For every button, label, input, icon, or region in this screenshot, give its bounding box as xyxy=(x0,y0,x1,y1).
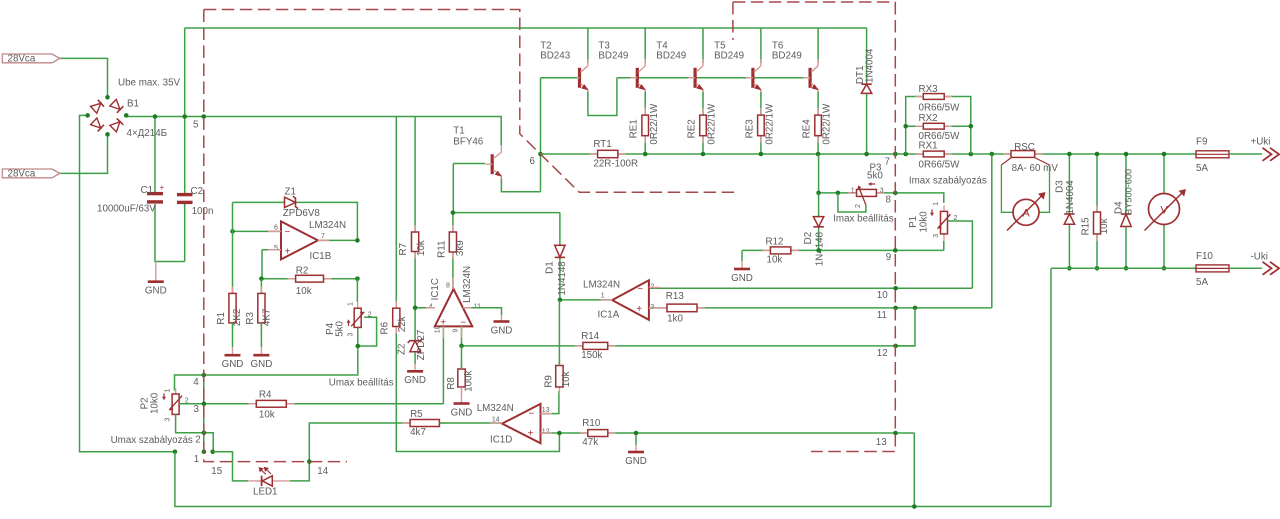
svg-text:3: 3 xyxy=(348,333,355,337)
trimmer P3 5k0 xyxy=(848,192,857,194)
svg-text:1: 1 xyxy=(851,187,855,194)
node 11 net wire xyxy=(697,307,992,309)
svg-text:5A: 5A xyxy=(1196,163,1208,174)
svg-text:R1: R1 xyxy=(216,312,227,325)
net tag 28Vca (top) xyxy=(2,54,60,63)
junction dots raw rail xyxy=(153,114,158,119)
diode D2 1N4148 xyxy=(818,193,820,216)
wire F10 to -Uki port xyxy=(1229,267,1262,269)
svg-text:12: 12 xyxy=(542,429,550,436)
svg-text:2: 2 xyxy=(195,434,200,445)
svg-text:−: − xyxy=(285,227,291,238)
top collector rail xyxy=(185,27,867,29)
diode D4 BY500-600 xyxy=(1125,154,1127,214)
svg-text:IC1A: IC1A xyxy=(598,310,620,321)
wire bridge minus to bottom-left rail (node 1 feed) xyxy=(80,115,175,451)
resistor R7 10k xyxy=(414,117,416,233)
resistor R1 2K2 xyxy=(232,286,234,293)
wire T2 base stub to node 6 column xyxy=(545,77,577,79)
P3 wiper loop wire xyxy=(838,193,866,212)
resistor RX1 0R66/5W xyxy=(915,153,923,155)
op-amp IC1B LM324N xyxy=(233,230,282,232)
resistor R14 150k xyxy=(575,345,583,347)
svg-text:15: 15 xyxy=(211,466,222,477)
svg-text:8: 8 xyxy=(446,282,450,289)
resistor R3 4K7 xyxy=(260,286,262,293)
shunt RSC 8A-60mV xyxy=(1035,153,1196,155)
IC1D pin12 node 13 net xyxy=(541,432,915,434)
svg-text:0R22/1W: 0R22/1W xyxy=(649,103,660,145)
P4 bottom to node 4 net xyxy=(175,327,358,390)
ground below R3 xyxy=(260,323,262,347)
svg-text:BD249: BD249 xyxy=(714,51,744,62)
svg-text:LM324N: LM324N xyxy=(462,266,473,303)
diode D1 1N4148 xyxy=(559,213,561,245)
svg-text:10: 10 xyxy=(877,290,888,301)
ground below R1 xyxy=(232,323,234,347)
svg-text:11: 11 xyxy=(474,303,481,310)
svg-text:R5: R5 xyxy=(410,409,423,420)
emitter resistor RE4 0R22/1W xyxy=(817,92,819,115)
capacitor C2 xyxy=(184,28,186,193)
transistor T1 BFY46 xyxy=(491,154,494,174)
svg-text:GND: GND xyxy=(451,407,473,418)
+Uki output port xyxy=(1263,148,1280,161)
svg-text:GND: GND xyxy=(731,273,753,284)
svg-text:10k: 10k xyxy=(416,240,427,256)
node 9 net wire xyxy=(742,249,944,251)
svg-text:A: A xyxy=(1022,208,1030,220)
node 10 net wire xyxy=(649,287,973,289)
svg-text:7: 7 xyxy=(885,157,890,168)
svg-text:22R-100R: 22R-100R xyxy=(593,158,638,169)
IC1D pin13 to R9 xyxy=(541,391,559,414)
transistor T6 BD249 xyxy=(817,28,819,63)
zener Z2 ZPD27 xyxy=(408,339,423,343)
svg-text:10k0: 10k0 xyxy=(150,392,161,414)
svg-text:RE2: RE2 xyxy=(686,119,697,138)
P1 wiper to node10 riser xyxy=(948,221,972,288)
resistor R8 100k xyxy=(461,362,463,369)
svg-text:150k: 150k xyxy=(581,350,602,361)
svg-text:−: − xyxy=(637,284,643,295)
svg-text:+: + xyxy=(636,304,642,315)
svg-text:RT1: RT1 xyxy=(593,139,611,150)
transistor T5 BD249 xyxy=(760,28,762,63)
svg-text:13: 13 xyxy=(876,437,887,448)
svg-text:3k9: 3k9 xyxy=(455,240,466,256)
resistor R9 10k xyxy=(558,359,560,366)
svg-text:F10: F10 xyxy=(1196,251,1213,262)
svg-text:14: 14 xyxy=(317,466,328,477)
svg-text:T1: T1 xyxy=(453,125,464,136)
svg-text:5: 5 xyxy=(193,119,199,130)
P2 wiper to R4 net (node 3) xyxy=(180,403,204,405)
svg-text:GND: GND xyxy=(222,359,244,370)
current sense ladder left riser xyxy=(906,97,924,155)
wire R5 to IC1D output xyxy=(439,422,502,424)
svg-text:BD243: BD243 xyxy=(540,51,571,62)
module boundary dashed left xyxy=(204,10,736,193)
IC1C pin 10 column to R4 net xyxy=(442,326,444,403)
resistor R12 10k xyxy=(762,249,770,251)
transistor T2 BD243 xyxy=(587,28,589,63)
svg-text:4k7: 4k7 xyxy=(410,427,426,438)
svg-text:R4: R4 xyxy=(259,390,272,401)
IC1C power pin 11 stub to GND xyxy=(463,308,502,315)
svg-text:GND: GND xyxy=(404,375,426,386)
wire main raw DC rail y117 from bridge to T1 collector xyxy=(126,117,501,146)
emitter resistor RE1 0R22/1W xyxy=(644,92,646,115)
resistor R15 10k xyxy=(1096,154,1098,212)
svg-text:11: 11 xyxy=(877,310,887,321)
svg-text:ZPD6V8: ZPD6V8 xyxy=(283,208,321,219)
svg-text:GND: GND xyxy=(145,286,167,297)
ground below Z2 xyxy=(414,352,416,364)
rail junction dots xyxy=(643,152,648,157)
node 8 net wire xyxy=(819,193,944,203)
transistor T4 BD249 xyxy=(702,28,704,63)
main output rail node6 to RSC xyxy=(541,153,1012,155)
svg-text:R11: R11 xyxy=(436,241,447,258)
node 1 bottom net xyxy=(173,450,178,455)
svg-text:RE1: RE1 xyxy=(629,119,640,138)
svg-text:LM324N: LM324N xyxy=(477,403,514,414)
svg-text:1N4004: 1N4004 xyxy=(1065,180,1076,215)
svg-text:BY500-600: BY500-600 xyxy=(1123,169,1133,215)
svg-text:GND: GND xyxy=(491,325,513,336)
svg-text:3: 3 xyxy=(194,404,200,415)
bottom rail riser to -Uki rail xyxy=(1050,268,1052,506)
transistor T3 BD249 xyxy=(644,28,646,63)
svg-text:10k: 10k xyxy=(1099,218,1110,234)
wire LED to R5 / IC1D out xyxy=(290,423,410,481)
wire top 28Vca input to bridge xyxy=(60,58,108,97)
svg-text:IC1D: IC1D xyxy=(490,435,512,446)
svg-text:R10: R10 xyxy=(582,418,601,429)
wire T1 base to D1 node xyxy=(453,212,560,214)
svg-text:1: 1 xyxy=(348,302,355,306)
svg-text:IC1C: IC1C xyxy=(430,278,441,300)
wire F9 to +Uki port xyxy=(1229,153,1262,155)
resistor R11 3k9 xyxy=(452,213,454,232)
svg-text:9: 9 xyxy=(886,252,891,263)
svg-text:R8: R8 xyxy=(446,377,457,390)
negative output rail xyxy=(1051,267,1196,269)
svg-text:+: + xyxy=(285,247,291,258)
svg-text:0R22/1W: 0R22/1W xyxy=(707,103,718,145)
svg-text:-Uki: -Uki xyxy=(1251,252,1268,263)
resistor RT1 22R-100R xyxy=(590,153,598,155)
svg-text:R13: R13 xyxy=(666,291,685,302)
ground below R8 xyxy=(461,387,463,404)
svg-text:1: 1 xyxy=(164,389,171,393)
svg-text:3: 3 xyxy=(880,187,884,194)
svg-text:R6: R6 xyxy=(380,321,391,334)
node 13 riser to bottom rail xyxy=(913,433,915,507)
P4 wiper loop xyxy=(358,317,377,346)
svg-text:Z1: Z1 xyxy=(285,187,296,198)
RSC sense stubs xyxy=(1001,157,1011,165)
svg-text:BFY46: BFY46 xyxy=(453,136,484,147)
svg-text:R9: R9 xyxy=(543,375,554,388)
svg-text:Imax beállítás: Imax beállítás xyxy=(833,213,894,224)
svg-text:22k: 22k xyxy=(397,316,408,332)
svg-text:28Vca: 28Vca xyxy=(8,169,36,180)
svg-text:1N4148: 1N4148 xyxy=(557,261,568,296)
svg-text:P1: P1 xyxy=(908,216,919,228)
svg-text:Ube max. 35V: Ube max. 35V xyxy=(118,78,181,89)
voltmeter V xyxy=(1163,154,1165,194)
svg-text:+: + xyxy=(528,428,534,439)
svg-text:B1: B1 xyxy=(127,99,139,110)
svg-text:10k: 10k xyxy=(767,254,783,265)
capacitor C1 xyxy=(154,117,156,193)
svg-text:R2: R2 xyxy=(296,266,309,277)
svg-text:4: 4 xyxy=(429,303,433,310)
wire node6 column T2-base/T1-emitter xyxy=(540,78,542,192)
zener Z1 ZPD6V8 xyxy=(233,201,285,203)
svg-text:LED1: LED1 xyxy=(253,487,278,498)
resistor R2 10k xyxy=(262,278,357,280)
wire base chain T3..T6 xyxy=(617,77,808,79)
resistor R10 47k xyxy=(580,432,588,434)
wire R2 line down to R3 xyxy=(260,279,262,294)
resistor RX3 0R66/5W xyxy=(915,96,923,98)
svg-text:0R22/1W: 0R22/1W xyxy=(822,103,833,145)
svg-text:8A- 60 mV: 8A- 60 mV xyxy=(1012,163,1059,174)
wire bottom 28Vca input to bridge xyxy=(60,134,108,173)
svg-text:D2: D2 xyxy=(803,232,814,245)
svg-text:R12: R12 xyxy=(766,237,784,248)
svg-text:1: 1 xyxy=(933,202,940,206)
P2 pin3 to node 2 jog xyxy=(176,414,214,451)
svg-text:R15: R15 xyxy=(1081,217,1092,236)
ammeter loop wires xyxy=(1001,165,1013,212)
svg-text:Umax beállítás: Umax beállítás xyxy=(329,378,394,389)
resistor R6 22k xyxy=(395,117,397,309)
ground below R12 xyxy=(741,250,743,261)
emitter resistor RE3 0R22/1W xyxy=(760,92,762,115)
diode DT1 1N4004 xyxy=(866,28,868,84)
svg-text:IC1B: IC1B xyxy=(310,251,332,262)
svg-text:GND: GND xyxy=(251,359,273,370)
node 12 net wire xyxy=(462,345,916,347)
svg-text:3: 3 xyxy=(164,418,171,422)
svg-text:LM324N: LM324N xyxy=(583,280,620,291)
svg-text:10k: 10k xyxy=(296,286,312,297)
svg-text:F9: F9 xyxy=(1196,136,1207,147)
resistor RX2 0R66/5W xyxy=(915,125,923,127)
op-amp IC1A LM324N (points left) xyxy=(560,299,612,301)
svg-text:5k0: 5k0 xyxy=(335,320,346,336)
svg-text:5k0: 5k0 xyxy=(867,171,883,182)
resistor R4 10k xyxy=(248,403,256,405)
svg-text:10k: 10k xyxy=(259,409,275,420)
IC1C power pin 4 stub xyxy=(415,307,435,309)
svg-text:GND: GND xyxy=(625,456,647,467)
svg-text:28Vca: 28Vca xyxy=(8,54,36,65)
svg-text:RX1: RX1 xyxy=(919,141,938,152)
svg-text:RSC: RSC xyxy=(1014,142,1035,153)
ground on node 13 net xyxy=(635,433,637,445)
trimmer P1 10k0 xyxy=(943,205,945,211)
svg-text:3: 3 xyxy=(933,234,940,238)
svg-text:5A: 5A xyxy=(1196,277,1208,288)
net tag 28Vca (bottom) xyxy=(2,169,60,178)
fuse F10 5A xyxy=(1196,265,1229,272)
op-amp IC1C LM324N (points up) xyxy=(435,289,473,326)
svg-text:BD249: BD249 xyxy=(598,51,628,62)
svg-text:2: 2 xyxy=(855,204,862,208)
svg-text:1k0: 1k0 xyxy=(667,314,683,325)
module boundary dashed right xyxy=(733,2,895,40)
node 3 net wire with R4 xyxy=(204,403,444,405)
op-amp IC1D LM324N (points left) xyxy=(502,404,540,443)
svg-text:10k: 10k xyxy=(561,371,572,387)
bridge rectifier B1 xyxy=(91,100,104,113)
svg-text:C1: C1 xyxy=(141,185,154,196)
svg-text:1: 1 xyxy=(601,293,605,300)
svg-text:RX2: RX2 xyxy=(919,113,938,124)
trimmer P4 5k0 xyxy=(356,279,358,302)
fuse F9 5A xyxy=(1196,151,1229,158)
svg-text:R7: R7 xyxy=(398,243,409,256)
svg-text:RE3: RE3 xyxy=(744,119,755,139)
svg-text:1: 1 xyxy=(194,454,199,465)
svg-text:D1: D1 xyxy=(545,261,556,274)
svg-text:2K2: 2K2 xyxy=(232,309,243,326)
wire node8 rail from RE4 emitter column xyxy=(818,154,820,193)
node 12 jog to node 11 xyxy=(896,308,915,346)
resistor R13 1k0 xyxy=(649,307,667,309)
svg-text:6: 6 xyxy=(530,156,536,167)
svg-text:10: 10 xyxy=(435,325,442,333)
svg-text:RX3: RX3 xyxy=(919,84,939,95)
svg-text:0R66/5W: 0R66/5W xyxy=(919,160,961,171)
wire vertical port bus under left dashed boundary xyxy=(203,375,205,452)
svg-text:10000uF/63V: 10000uF/63V xyxy=(97,204,156,215)
svg-text:0R22/1W: 0R22/1W xyxy=(765,103,776,145)
svg-text:9: 9 xyxy=(453,329,460,333)
LED1 xyxy=(248,480,262,482)
svg-text:47k: 47k xyxy=(582,437,598,448)
trimmer P2 10k0 xyxy=(175,388,177,394)
op-amp pin stubs (pink pin leads) xyxy=(268,230,281,232)
svg-text:12: 12 xyxy=(877,348,888,359)
svg-text:7: 7 xyxy=(321,233,325,240)
svg-text:R14: R14 xyxy=(581,331,600,342)
diode D3 1N4004 xyxy=(1068,154,1070,214)
node 11 riser to output rail xyxy=(991,154,993,308)
svg-text:5: 5 xyxy=(274,245,278,252)
svg-text:Z2: Z2 xyxy=(396,343,407,354)
svg-text:8: 8 xyxy=(886,195,892,206)
svg-text:+Uki: +Uki xyxy=(1251,137,1271,148)
svg-text:BD249: BD249 xyxy=(656,51,686,62)
-Uki output port xyxy=(1263,262,1280,275)
svg-text:C2: C2 xyxy=(191,186,204,197)
svg-text:+: + xyxy=(160,183,165,192)
resistor R5 4k7 xyxy=(402,422,410,424)
svg-text:−: − xyxy=(529,409,535,420)
ground below C1 C2 xyxy=(155,262,157,282)
wire Z1/pin6 column to R1 xyxy=(232,202,234,293)
svg-text:RE4: RE4 xyxy=(802,119,813,139)
current sense ladder right riser xyxy=(944,97,971,155)
svg-text:10k0: 10k0 xyxy=(919,211,930,233)
svg-text:Imax szabályozás: Imax szabályozás xyxy=(909,176,987,187)
svg-text:ZPD27: ZPD27 xyxy=(416,330,427,361)
svg-text:1N4004: 1N4004 xyxy=(865,48,876,83)
svg-text:100n: 100n xyxy=(192,206,214,217)
svg-text:LM324N: LM324N xyxy=(309,220,346,231)
svg-text:BD249: BD249 xyxy=(772,51,802,62)
svg-text:4K7: 4K7 xyxy=(261,309,272,326)
emitter resistor RE2 0R22/1W xyxy=(702,92,704,115)
svg-text:Umax szabályozás: Umax szabályozás xyxy=(111,435,193,446)
svg-text:V: V xyxy=(1160,205,1168,217)
wire node1 to LED branch xyxy=(213,452,248,481)
wire node1 down to bottom rail xyxy=(175,452,1051,507)
svg-text:R3: R3 xyxy=(245,311,256,324)
IC1C pin 9 column xyxy=(461,326,463,346)
svg-text:100k: 100k xyxy=(463,370,474,391)
svg-text:4×Д214Б: 4×Д214Б xyxy=(127,128,168,139)
ammeter A xyxy=(1013,199,1039,225)
svg-text:4: 4 xyxy=(193,377,199,388)
svg-text:6: 6 xyxy=(274,225,278,232)
